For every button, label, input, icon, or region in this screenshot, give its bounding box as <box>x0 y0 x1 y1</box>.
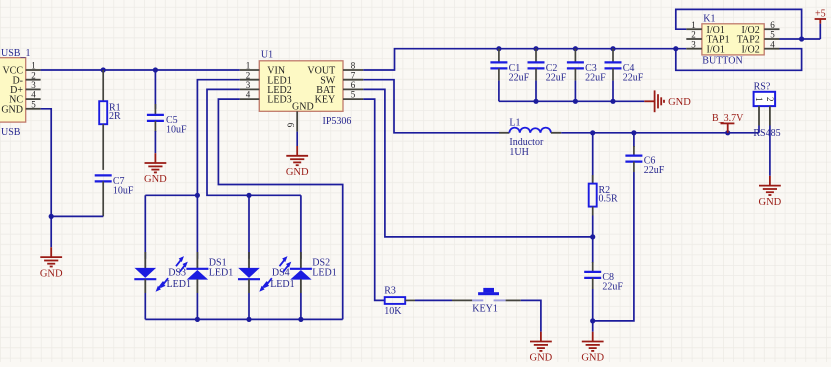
wire KEY net <box>363 99 384 300</box>
K1 pin 1 <box>686 28 702 30</box>
wire DS2 bottom pin <box>300 279 302 293</box>
resistor R2 <box>589 184 597 207</box>
C4 <box>605 62 622 68</box>
svg-text:GND: GND <box>530 353 553 362</box>
svg-text:8: 8 <box>351 61 356 71</box>
svg-text:GND: GND <box>581 353 604 362</box>
wire C1 bottom <box>498 81 500 102</box>
svg-text:USB_1: USB_1 <box>1 48 30 59</box>
junction rail-B_3.7V <box>725 130 730 135</box>
wire LED2 net <box>207 89 301 195</box>
wire DS2 top <box>300 195 302 258</box>
ground GND C8 <box>582 332 604 351</box>
svg-text:10K: 10K <box>384 306 402 317</box>
svg-text:1: 1 <box>691 20 696 30</box>
svg-text:IP5306: IP5306 <box>323 116 352 127</box>
svg-text:2: 2 <box>246 70 251 80</box>
wire K1 top wrap <box>676 9 802 39</box>
wire R1 top <box>102 70 104 101</box>
svg-text:GND: GND <box>759 197 782 208</box>
wire pin9 to ground <box>296 132 298 146</box>
wire <box>499 100 644 102</box>
K1 pin 2 <box>686 38 702 40</box>
U1 pin 5 <box>343 98 363 100</box>
LED DS4 <box>238 268 260 278</box>
svg-text:+5: +5 <box>815 9 826 20</box>
junction LED2 <box>246 193 251 198</box>
svg-text:B_3.7V: B_3.7V <box>712 113 744 124</box>
wire C4 lower pin <box>612 68 614 80</box>
wire KEY1 to gnd <box>521 300 541 331</box>
svg-text:22uF: 22uF <box>623 73 644 84</box>
K1 pin 3 <box>686 48 702 50</box>
junction USB-GND net <box>49 214 54 219</box>
junction C4 gnd <box>610 99 615 104</box>
wire R2 top <box>592 133 594 184</box>
svg-text:KEY: KEY <box>315 95 336 106</box>
ground GND U1 <box>286 146 308 165</box>
svg-text:1: 1 <box>246 61 251 71</box>
junction BAT <box>590 234 595 239</box>
svg-text:2: 2 <box>691 30 696 40</box>
component RS? RS485 <box>754 92 776 106</box>
resistor R3 <box>385 297 406 304</box>
wire DS4 top <box>248 195 250 258</box>
wire LED1 net <box>197 80 239 196</box>
ground GND KEY1 <box>530 332 552 351</box>
svg-text:4: 4 <box>31 90 36 100</box>
svg-text:R3: R3 <box>384 286 396 297</box>
svg-text:5: 5 <box>351 90 356 100</box>
wire C1 top <box>498 49 500 63</box>
U1 pin 9 <box>296 111 298 131</box>
wire C7 to GND net <box>51 215 103 217</box>
svg-text:7: 7 <box>351 70 356 80</box>
svg-text:GND: GND <box>286 167 309 178</box>
svg-text:GND: GND <box>40 268 63 279</box>
svg-text:3: 3 <box>31 80 36 90</box>
svg-text:BUTTON: BUTTON <box>702 56 742 67</box>
inductor L1 <box>499 132 509 134</box>
LED DS3 <box>135 268 157 278</box>
wire C8 to ground <box>592 289 594 332</box>
ground GND C5 <box>145 153 167 172</box>
wire RS pin1 <box>758 126 760 133</box>
svg-text:10uF: 10uF <box>166 125 187 136</box>
IC U1 IP5306 <box>259 61 343 112</box>
ground GND USB <box>40 247 62 266</box>
svg-text:22uF: 22uF <box>602 281 623 292</box>
wire R3 to KEY1 <box>415 299 452 301</box>
wire C5 bottom pin <box>154 121 156 132</box>
junction C2 gnd <box>533 99 538 104</box>
svg-text:22uF: 22uF <box>585 73 606 84</box>
junction VCC-R1 <box>101 67 106 72</box>
svg-text:2: 2 <box>31 70 36 80</box>
K1 pin 6 <box>764 28 779 30</box>
junction C3 gnd <box>573 99 578 104</box>
svg-text:9: 9 <box>286 122 296 127</box>
RS? pin 1 <box>758 106 760 125</box>
svg-text:3: 3 <box>691 39 696 49</box>
wire C6 top <box>633 133 635 147</box>
junction VOUT-cap <box>496 46 501 51</box>
svg-text:DS3: DS3 <box>168 267 186 278</box>
wire C7 bottom <box>102 181 104 216</box>
svg-text:3: 3 <box>246 80 251 90</box>
wire <box>248 293 250 319</box>
svg-text:5: 5 <box>770 30 775 40</box>
wire DS3 bottom pin <box>144 279 146 293</box>
RS? pin 2 <box>769 106 771 125</box>
connector K1 <box>702 24 764 55</box>
svg-text:1: 1 <box>754 97 764 102</box>
USB_1 pin 4 <box>26 98 41 100</box>
wire DS3 top <box>144 195 146 258</box>
U1 pin 2 <box>240 79 259 81</box>
svg-text:U1: U1 <box>261 50 273 61</box>
ground GND RS485 <box>759 176 781 195</box>
svg-text:DS4: DS4 <box>272 267 290 278</box>
C3 <box>567 62 584 68</box>
junction LED1 <box>195 193 200 198</box>
wire DS1 bottom pin <box>196 279 198 293</box>
resistor R1 <box>99 101 107 124</box>
svg-text:1UH: 1UH <box>509 147 528 158</box>
wire <box>300 293 302 319</box>
C7 <box>95 175 112 181</box>
junction rail-C6 <box>631 130 636 135</box>
wire <box>144 293 146 319</box>
C5 <box>147 115 164 121</box>
svg-text:6: 6 <box>351 80 356 90</box>
U1 pin 8 <box>343 69 363 71</box>
svg-text:22uF: 22uF <box>509 73 530 84</box>
wire C8 top <box>592 237 594 263</box>
svg-text:LED3: LED3 <box>267 95 291 106</box>
svg-text:2: 2 <box>765 97 775 102</box>
junction C8-C6 gnd <box>590 318 595 323</box>
svg-text:L1: L1 <box>509 118 520 129</box>
svg-text:KEY1: KEY1 <box>472 303 498 314</box>
wire C5 to ground <box>154 131 156 153</box>
U1 pin 7 <box>343 79 363 81</box>
ground GND caps <box>644 90 664 112</box>
USB_1 pin 3 <box>26 88 41 90</box>
C1 <box>490 62 507 68</box>
svg-text:5: 5 <box>31 99 36 109</box>
wire C3 lower pin <box>574 68 576 80</box>
wire R2 to BAT net <box>592 216 594 237</box>
wire SW to L1 <box>363 80 499 133</box>
svg-text:I/O2: I/O2 <box>741 44 759 55</box>
wire R2 bottom pin <box>592 207 594 216</box>
wire USB GND <box>41 109 52 248</box>
junction L1-R2 <box>590 130 595 135</box>
junction rail DS4 <box>246 317 251 322</box>
wire C3 top <box>574 49 576 63</box>
LED DS1 <box>186 268 208 270</box>
svg-text:LED1: LED1 <box>167 279 191 290</box>
junction rail DS2 <box>298 317 303 322</box>
wire BAT net <box>363 89 592 237</box>
wire VOUT rail <box>363 49 686 70</box>
junction K1 +5 <box>799 36 804 41</box>
svg-text:USB: USB <box>1 127 21 138</box>
wire C6 bottom pin <box>633 162 635 172</box>
USB_1 pin 5 <box>26 108 41 110</box>
svg-text:GND: GND <box>668 97 691 108</box>
wire C5 top <box>154 70 156 109</box>
wire C4 bottom <box>612 81 614 102</box>
C8 <box>584 272 601 278</box>
svg-text:4: 4 <box>770 39 775 49</box>
wire C4 top <box>612 49 614 63</box>
svg-text:2R: 2R <box>109 111 121 122</box>
junction VOUT-K1 <box>673 46 678 51</box>
wire C2 top <box>535 49 537 63</box>
wire battery rail <box>561 132 759 134</box>
wire LED rail A <box>145 194 197 196</box>
push button KEY1 <box>452 299 472 301</box>
USB_1 pin 1 <box>26 69 41 71</box>
svg-text:RS485: RS485 <box>753 128 780 139</box>
svg-text:10uF: 10uF <box>113 186 134 197</box>
C2 <box>528 62 545 68</box>
svg-text:GND: GND <box>1 104 23 115</box>
power B_3.7V <box>721 123 735 132</box>
wire C3 bottom <box>574 81 576 102</box>
wire C2 lower pin <box>535 68 537 80</box>
wire RS pin2 to gnd <box>769 126 771 176</box>
wire C8 bottom pin <box>592 278 594 289</box>
svg-text:4: 4 <box>246 90 251 100</box>
U1 pin 4 <box>240 98 259 100</box>
svg-text:K1: K1 <box>703 14 715 25</box>
K1 pin 5 <box>764 38 779 40</box>
C6 <box>625 156 642 162</box>
svg-text:0.5R: 0.5R <box>599 194 619 205</box>
svg-text:LED1: LED1 <box>270 279 294 290</box>
junction VOUT-cap <box>573 46 578 51</box>
wire LED3 net <box>218 99 342 319</box>
wire VCC rail <box>41 69 240 71</box>
R3 right pin <box>405 299 415 301</box>
svg-text:LED1: LED1 <box>209 268 233 279</box>
svg-text:RS?: RS? <box>754 81 771 92</box>
wire C2 bottom <box>535 81 537 102</box>
U1 pin 6 <box>343 88 363 90</box>
wire K1 bottom wrap <box>676 49 802 71</box>
wire C6 to gnd net <box>593 172 634 321</box>
junction VCC-C5 <box>153 67 158 72</box>
svg-text:GND: GND <box>292 101 314 112</box>
USB_1 pin 2 <box>26 79 41 81</box>
wire DS4 bottom pin <box>248 279 250 293</box>
connector USB_1 <box>0 58 26 122</box>
wire <box>145 318 342 320</box>
U1 pin 1 <box>240 69 259 71</box>
svg-text:22uF: 22uF <box>546 73 567 84</box>
svg-text:GND: GND <box>144 174 167 185</box>
svg-text:LED1: LED1 <box>312 268 336 279</box>
svg-text:1: 1 <box>31 61 36 71</box>
wire DS1 top <box>196 195 198 258</box>
wire C1 lower pin <box>498 68 500 80</box>
wire <box>819 24 821 39</box>
junction rail DS1 <box>195 317 200 322</box>
svg-text:I/O1: I/O1 <box>707 44 725 55</box>
wire <box>196 293 198 319</box>
wire R1-C7 <box>102 124 104 170</box>
K1 pin 4 <box>764 48 779 50</box>
KEY1 right pin <box>506 299 521 301</box>
junction VOUT-cap <box>610 46 615 51</box>
svg-text:6: 6 <box>770 20 775 30</box>
U1 pin 3 <box>240 88 259 90</box>
svg-text:22uF: 22uF <box>644 165 665 176</box>
junction VOUT-cap <box>533 46 538 51</box>
LED DS2 <box>290 268 312 270</box>
wire K1 pin5 to +5 <box>780 38 821 40</box>
